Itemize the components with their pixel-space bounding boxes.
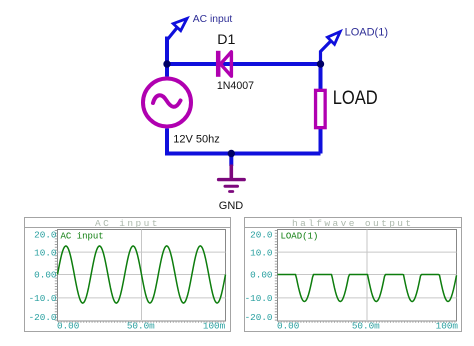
svg-text:AC input: AC input (193, 14, 233, 25)
diode D1 (218, 51, 231, 77)
svg-text:0.00: 0.00 (34, 270, 56, 281)
svg-text:50.0m: 50.0m (352, 321, 380, 332)
waveform halfwave output (278, 275, 457, 302)
svg-text:20.0: 20.0 (34, 229, 56, 240)
svg-text:GND: GND (219, 200, 244, 212)
scope panel halfwave output window (245, 218, 462, 332)
svg-text:50.0m: 50.0m (127, 321, 155, 332)
node junction at load top (317, 60, 324, 67)
probe arrow AC input (167, 19, 187, 41)
svg-text:AC input: AC input (61, 231, 104, 241)
svg-text:100m: 100m (203, 321, 226, 332)
ground (219, 165, 245, 192)
svg-text:-10.0: -10.0 (29, 293, 57, 304)
waveform AC input sine (58, 246, 226, 303)
svg-text:1N4007: 1N4007 (217, 80, 254, 92)
svg-text:-20.0: -20.0 (29, 312, 57, 323)
scope panel AC input window (25, 218, 231, 332)
svg-text:100m: 100m (436, 321, 459, 332)
wire top horizontal net from source to load (167, 62, 321, 66)
svg-text:LOAD: LOAD (333, 88, 378, 109)
wire right vertical through load (319, 62, 323, 154)
svg-text:-10.0: -10.0 (245, 293, 273, 304)
resistor LOAD (316, 90, 326, 127)
svg-text:10.0: 10.0 (250, 247, 272, 258)
svg-text:LOAD(1): LOAD(1) (281, 231, 319, 241)
svg-text:0.00: 0.00 (250, 270, 272, 281)
node junction at source top (163, 60, 170, 67)
wire bottom horizontal ground rail (165, 152, 321, 156)
probe arrow LOAD(1) (321, 32, 341, 64)
wire left vertical from probe bend to source top (165, 37, 169, 77)
svg-text:0.00: 0.00 (277, 321, 299, 332)
svg-text:12V 50hz: 12V 50hz (173, 133, 219, 145)
svg-text:-20.0: -20.0 (245, 312, 273, 323)
svg-text:D1: D1 (217, 32, 235, 48)
svg-text:20.0: 20.0 (250, 229, 272, 240)
svg-text:0.00: 0.00 (57, 321, 79, 332)
wire source bottom to ground rail (165, 129, 169, 154)
svg-text:halfwave output: halfwave output (292, 218, 414, 229)
wire ground stub (229, 154, 233, 167)
svg-text:10.0: 10.0 (34, 247, 56, 258)
AC source V1 (143, 79, 191, 127)
svg-text:AC input: AC input (95, 218, 160, 229)
node junction ground rail (228, 150, 235, 157)
svg-text:LOAD(1): LOAD(1) (345, 27, 388, 39)
